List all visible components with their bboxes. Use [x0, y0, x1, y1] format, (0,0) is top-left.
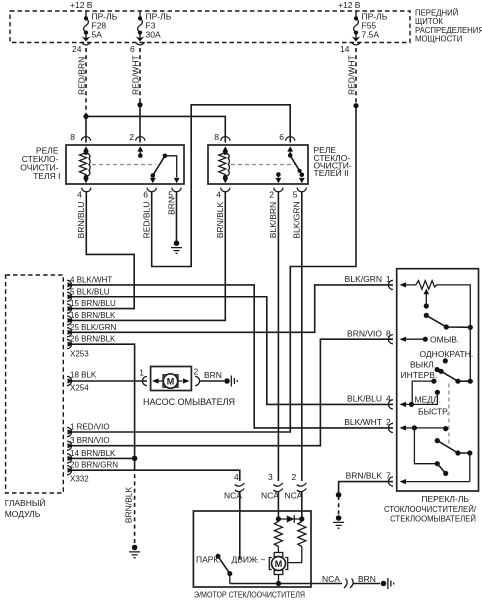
svg-text:СТОКЛООЧИСТИТЕЛЕЙ/: СТОКЛООЧИСТИТЕЛЕЙ/ — [384, 505, 477, 514]
svg-text:30А: 30А — [146, 30, 161, 40]
wire: F3 to relay I pin 2 — [139, 105, 141, 143]
svg-text:20 BRN/GRN: 20 BRN/GRN — [70, 461, 118, 470]
relay I actuation dashed link — [92, 164, 156, 166]
svg-text:Э/МОТОР СТЕКЛООЧИСТИТЕЛЯ: Э/МОТОР СТЕКЛООЧИСТИТЕЛЯ — [194, 590, 305, 600]
fuse F28 5A — [81, 11, 117, 45]
svg-text:14 BRN/BLK: 14 BRN/BLK — [70, 449, 116, 458]
wiper motor box — [193, 511, 311, 587]
module pin 16 BRN/BLK — [67, 316, 72, 325]
relay I box — [66, 145, 184, 184]
svg-text:RED/WHT: RED/WHT — [347, 55, 357, 95]
svg-text:ЩИТОК: ЩИТОК — [415, 17, 443, 26]
wire: F55 to module pin 1 RED/VIO — [71, 106, 356, 432]
svg-text:NCA: NCA — [285, 491, 303, 501]
switch pin 7 connector BRN/BLK — [388, 477, 393, 486]
svg-text:ПЕРЕКЛ-ЛЬ: ПЕРЕКЛ-ЛЬ — [421, 494, 469, 504]
relay II pin 2 contact stub — [276, 172, 282, 183]
svg-text:6: 6 — [130, 44, 135, 54]
motor bottom bus — [230, 583, 311, 585]
svg-text:18 BLK: 18 BLK — [70, 371, 97, 380]
svg-text:ГЛАВНЫЙ: ГЛАВНЫЙ — [5, 497, 46, 508]
svg-text:8: 8 — [70, 132, 75, 142]
relay I pin 8 connector — [81, 137, 90, 141]
svg-text:БЫСТР.: БЫСТР. — [418, 407, 449, 417]
svg-text:RED/BLU: RED/BLU — [142, 202, 152, 239]
module pin 5 BLK/BLU — [67, 292, 72, 301]
connector NCA (motor pin 3) — [273, 483, 283, 492]
svg-text:1: 1 — [386, 274, 391, 284]
relay II pin 2 connector — [274, 188, 283, 192]
run contact DVIZH (motor pin 4 wire) — [239, 511, 241, 560]
svg-text:5: 5 — [168, 190, 173, 200]
wire: BRN/BLK drop to ground — [134, 458, 136, 467]
ground (switch pin 7) — [333, 515, 344, 528]
svg-text:НАСОС ОМЫВАТЕЛЯ: НАСОС ОМЫВАТЕЛЯ — [143, 397, 235, 407]
relay II pin 4 connector — [221, 188, 230, 192]
svg-text:6: 6 — [143, 190, 148, 200]
svg-text:BRN/BLK: BRN/BLK — [124, 486, 134, 523]
svg-text:4: 4 — [234, 472, 239, 482]
module pin 15 BRN/BLU — [67, 304, 72, 313]
svg-text:4 BLK/WHT: 4 BLK/WHT — [70, 275, 112, 284]
BYSTR contact line — [406, 425, 448, 431]
svg-text:2: 2 — [292, 472, 297, 482]
svg-text:NCA: NCA — [322, 574, 340, 584]
relay II pin 6 contact stub — [287, 146, 293, 158]
resistor (motor pin 3 branch) — [274, 522, 282, 547]
node: F28 junction — [83, 114, 88, 119]
svg-text:МОДУЛЬ: МОДУЛЬ — [5, 509, 41, 519]
svg-text:ВЫКЛ.: ВЫКЛ. — [410, 360, 436, 370]
svg-text:ТЕЛЯ I: ТЕЛЯ I — [33, 171, 60, 181]
pin 2 branch to lower contact — [414, 428, 440, 466]
svg-text:1: 1 — [139, 368, 144, 378]
svg-text:25 BLK/GRN: 25 BLK/GRN — [70, 323, 116, 332]
svg-text:ОДНОКРАТН.: ОДНОКРАТН. — [420, 349, 474, 359]
fuse F55 7.5A — [351, 11, 387, 45]
wiper/washer switch box — [397, 269, 479, 491]
relay I wire to pin 5 contact — [165, 156, 180, 184]
relay I pin 6 connector — [147, 188, 156, 192]
park switch blade — [218, 556, 230, 573]
svg-text:14: 14 — [340, 44, 350, 54]
motor pin 2 node — [301, 511, 303, 522]
svg-text:5: 5 — [293, 190, 298, 200]
module pin 20 BRN/GRN — [67, 466, 72, 475]
front power distribution panel dashed box — [10, 11, 410, 43]
relay I pin 5 connector — [172, 188, 181, 192]
pin 7 internal line — [406, 481, 470, 483]
washer rotary blade — [424, 313, 473, 330]
wire: relay II pin 2 BLK/BRN to wiper motor pin 3 — [277, 192, 279, 482]
module pin 26 BRN/BLK — [67, 340, 72, 349]
svg-text:ТЕЛЕЙ II: ТЕЛЕЙ II — [314, 167, 349, 178]
svg-text:26 BRN/BLK: 26 BRN/BLK — [70, 335, 116, 344]
svg-text:NCA: NCA — [261, 491, 279, 501]
ground (washer pump BRN) rotated — [224, 376, 237, 387]
svg-text:2: 2 — [194, 367, 199, 377]
motor output NCA to BRN ground — [311, 583, 342, 585]
svg-text:3 BRN/VIO: 3 BRN/VIO — [70, 436, 110, 445]
wire: F28 to relay I pin 8 — [85, 116, 87, 142]
connector NCA (motor pin 4) — [235, 483, 245, 492]
module pin 1 RED/VIO — [67, 427, 72, 436]
wire: relay II pin 4 to module pin 16 BRN/BLK — [71, 192, 225, 321]
svg-text:СТЕКЛООМЫВАТЕЛЕЙ: СТЕКЛООМЫВАТЕЛЕЙ — [390, 515, 476, 524]
svg-text:2: 2 — [129, 132, 134, 142]
relay II box — [208, 145, 308, 184]
wire: module pin 20 BRN/GRN to wiper motor pin 4 — [71, 470, 240, 481]
svg-text:МЕДЛ.: МЕДЛ. — [415, 395, 441, 405]
washer pump connector pin 1 — [142, 376, 147, 385]
connector NCA (motor pin 2) — [297, 483, 307, 492]
svg-text:BRN: BRN — [204, 370, 222, 380]
wire: module pin 4 BLK/WHT to switch pin 2 — [71, 285, 393, 428]
svg-text:M: M — [167, 376, 175, 386]
lower blade 1 to rail — [435, 438, 473, 482]
switch pin 4 connector BLK/BLU — [388, 400, 393, 409]
svg-text:4: 4 — [77, 190, 82, 200]
washer pump motor — [159, 374, 190, 388]
switch pin 1 connector BLK/GRN — [388, 280, 393, 289]
svg-text:ПЕРЕДНИЙ: ПЕРЕДНИЙ — [415, 9, 458, 18]
module pin 18 connector — [67, 376, 72, 385]
svg-text:7.5А: 7.5А — [362, 30, 380, 40]
contact dot ODNOKRATN — [443, 358, 448, 363]
svg-text:5А: 5А — [92, 30, 103, 40]
svg-text:BLK/GRN: BLK/GRN — [292, 201, 302, 238]
connector (motor output) — [344, 579, 353, 589]
potentiometer wiper arrow — [424, 289, 430, 309]
svg-text:BRN/VIO: BRN/VIO — [347, 328, 382, 338]
relay I switch blade — [150, 154, 167, 184]
svg-text:RED/WHT: RED/WHT — [131, 55, 141, 95]
wire: relay II pin 5 BLK/GRN to wiper motor pin 2 — [301, 192, 303, 482]
node: F55 junction — [353, 103, 358, 108]
resistor (motor pin 2 branch) — [298, 522, 306, 547]
svg-text:RED/BRN: RED/BRN — [77, 57, 87, 95]
svg-text:BRN/BLK: BRN/BLK — [215, 201, 225, 238]
svg-text:ИНТЕРВ.: ИНТЕРВ. — [401, 370, 438, 380]
ground (motor output BRN) rotated — [381, 578, 394, 589]
MEDL contact stub — [406, 390, 440, 407]
wire BRN to ground — [199, 380, 224, 382]
relay II pin 8 connector — [221, 137, 230, 141]
svg-text:X254: X254 — [70, 384, 89, 393]
relay I pin 2 connector — [136, 137, 145, 141]
wire: module pin 14 BRN/BLK stub — [71, 457, 135, 459]
svg-text:8: 8 — [386, 328, 391, 338]
relay I pin 4 connector — [82, 188, 91, 192]
svg-text:7: 7 — [386, 471, 391, 481]
svg-text:2: 2 — [269, 190, 274, 200]
lower blade 2 — [437, 464, 448, 476]
washer pump box — [151, 367, 192, 391]
svg-text:BLK/GRN: BLK/GRN — [345, 274, 382, 284]
node: pins 14/26 junction — [132, 456, 138, 462]
svg-text:BRN: BRN — [167, 197, 177, 215]
washer pump connector pin 2 — [195, 376, 200, 385]
svg-text:BLK/WHT: BLK/WHT — [344, 417, 382, 427]
svg-text:ОМЫВ.: ОМЫВ. — [430, 335, 459, 345]
svg-text:M: M — [275, 559, 283, 569]
fuse F3 30A — [135, 11, 171, 45]
svg-text:РАСПРЕДЕЛЕНИЯ: РАСПРЕДЕЛЕНИЯ — [415, 26, 482, 35]
park linkage dashed — [254, 559, 267, 561]
module pin 14 BRN/BLK — [67, 454, 72, 463]
switch pin 8 connector BRN/VIO — [388, 335, 393, 344]
svg-text:X332: X332 — [70, 475, 89, 484]
wire: module pin 3 BRN/VIO to switch pin 8 — [71, 339, 393, 446]
svg-text:24: 24 — [72, 44, 82, 54]
wire: module pin 18 BLK to washer pump — [71, 380, 147, 382]
main module dashed box — [6, 275, 64, 493]
svg-text:BRN/BLK: BRN/BLK — [346, 471, 383, 481]
contact dot INTERV + branch to pin 4 — [412, 379, 436, 405]
wire: switch pin 7 to ground — [339, 482, 393, 494]
relay I pin 2 contact stub — [137, 146, 143, 158]
module pin 3 BRN/VIO — [67, 441, 72, 450]
svg-text:4: 4 — [386, 394, 391, 404]
svg-text:4: 4 — [216, 190, 221, 200]
relay II pin 6 connector — [286, 137, 295, 141]
switch potentiometer — [406, 281, 470, 382]
svg-text:МОЩНОСТИ: МОЩНОСТИ — [415, 35, 462, 44]
svg-text:1 RED/VIO: 1 RED/VIO — [70, 423, 110, 432]
wire RED/BRN dashed drop from F28 — [85, 48, 87, 114]
mode selector blade — [439, 369, 473, 384]
svg-text:BRN: BRN — [358, 574, 376, 584]
svg-text:+12 В: +12 В — [338, 0, 361, 10]
wire: relay I pin 4 to module pin 15 BRN/BLU — [71, 192, 134, 309]
relay II switch blade — [290, 155, 305, 183]
relay II coil — [219, 146, 230, 183]
svg-text:BLK/BRN: BLK/BRN — [268, 202, 278, 238]
svg-text:15 BRN/BLU: 15 BRN/BLU — [70, 299, 116, 308]
washer contact OMYV — [406, 338, 424, 340]
svg-text:3: 3 — [268, 472, 273, 482]
speed linkage dashed — [448, 384, 450, 446]
wiper motor M — [269, 553, 287, 584]
svg-text:BRN/BLU: BRN/BLU — [76, 202, 86, 239]
relay I coil — [80, 146, 91, 183]
wire: F28 branch to relay II pin 8 — [86, 116, 225, 142]
contact dot VYKL — [435, 367, 440, 372]
svg-text:2: 2 — [386, 417, 391, 427]
svg-text:6: 6 — [279, 132, 284, 142]
motor pin 3 node — [277, 511, 279, 522]
svg-text:+12 В: +12 В — [70, 0, 93, 10]
diode between pin3 and pin2 nodes — [278, 515, 301, 523]
wire: relay I pin 5 BRN to ground — [176, 192, 178, 241]
relay II pin 5 connector — [297, 188, 306, 192]
ground (relay I pin 5) — [171, 240, 182, 253]
wire RED/WHT dashed drop from F55 — [355, 48, 357, 104]
wire: module pin 5 BLK/BLU to switch pin 4 — [71, 297, 393, 405]
svg-text:16 BRN/BLK: 16 BRN/BLK — [70, 311, 116, 320]
wire RED/WHT dashed drop from F3 — [139, 48, 141, 103]
ground (module BRN/BLK) — [129, 545, 140, 558]
relay II actuation dashed link — [231, 164, 296, 166]
svg-text:5 BLK/BLU: 5 BLK/BLU — [70, 287, 110, 296]
svg-text:8: 8 — [214, 132, 219, 142]
node: F3 junction — [137, 102, 142, 107]
svg-text:BLK/BLU: BLK/BLU — [347, 394, 382, 404]
wire: module pin 25 BLK/GRN to switch pin 1 — [71, 285, 393, 332]
wire: module pin 26 BRN/BLK down to pin 14 node — [71, 344, 135, 458]
svg-text:X253: X253 — [70, 350, 89, 359]
switch pin 2 connector BLK/WHT — [388, 423, 393, 432]
module pin 4 BLK/WHT — [67, 280, 72, 289]
module pin 25 BLK/GRN — [67, 328, 72, 337]
wire: relay I pin 6 to relay II pin 6 (RED/BLU) — [152, 105, 291, 267]
